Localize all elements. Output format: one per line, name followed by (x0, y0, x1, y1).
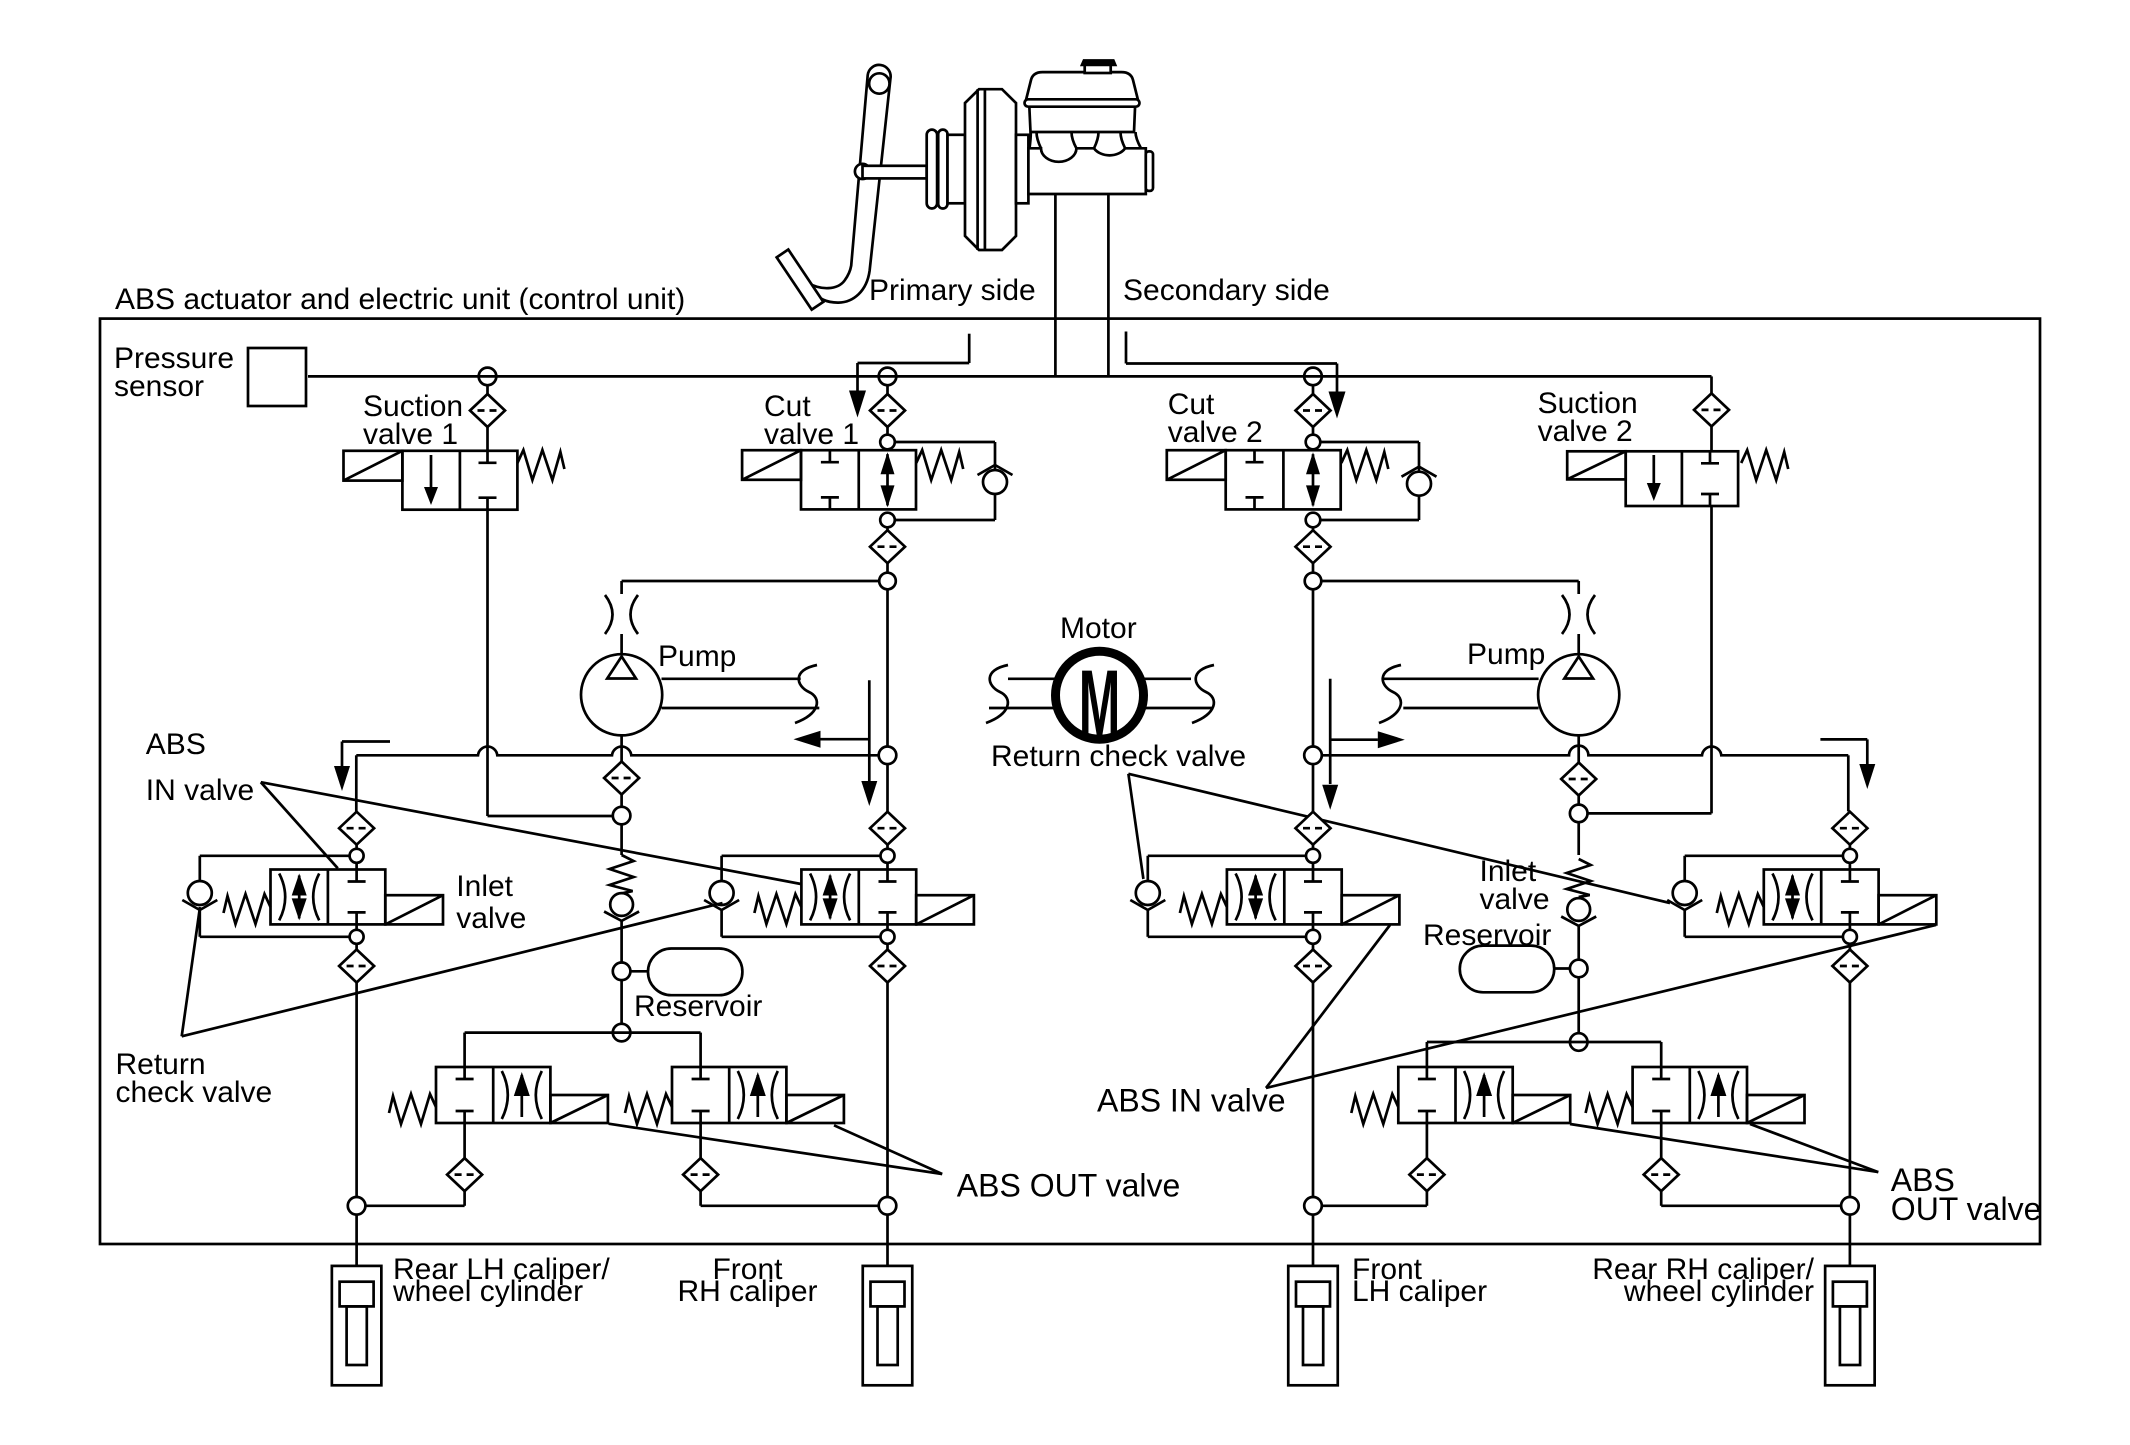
svg-text:Pump: Pump (1467, 638, 1545, 671)
svg-text:valve: valve (456, 902, 526, 935)
node reservoir 2 connection (1570, 960, 1588, 978)
wire: rear LH out to rail (365, 1204, 465, 1207)
ABS IN valve (front LH) orifice chamber (1236, 874, 1276, 921)
wire: suction valve 2 feed (1710, 376, 1713, 393)
node cut valve 1 bypass bottom (880, 513, 895, 528)
node cut valve 2 bypass bottom (1306, 513, 1321, 528)
node above ABS IN valve (rear RH) (1843, 849, 1857, 863)
ABS OUT valve (rear RH) body (1633, 1067, 1747, 1123)
suction valve 1 spring (517, 450, 564, 480)
ABS IN valve (rear RH) return check valve (1667, 881, 1702, 910)
wire: ABS IN valve (rear LH) bypass loop (200, 854, 350, 857)
ABS OUT valve (rear LH) body (436, 1067, 550, 1123)
svg-text:valve 2: valve 2 (1538, 415, 1633, 448)
master cylinder coupling (1016, 135, 1028, 204)
node above ABS IN valve (front LH) (1306, 849, 1320, 863)
pedal top pivot (869, 73, 889, 93)
ABS OUT valve (front RH) closed chamber top (692, 1067, 710, 1079)
wire to suction valve 1 (486, 427, 489, 451)
ABS IN valve (front RH) closed chamber top (879, 870, 897, 882)
ABS OUT valve (front LH) closed chamber top (1418, 1067, 1436, 1079)
ABS OUT valve (front RH) orifice chamber (738, 1071, 778, 1119)
ABS IN valve (rear RH) solenoid coil (1879, 895, 1937, 924)
cut valve 2 closed chamber top (1246, 450, 1264, 462)
flow arrow to cut valve 2 (1322, 679, 1405, 810)
ABS OUT valve (front RH) body (672, 1067, 786, 1123)
filter above ABS IN valve (front RH) (870, 812, 905, 845)
flow arrow from primary side (968, 334, 971, 363)
shaft break at motor right (1192, 665, 1214, 723)
node reservoir 1 connection (613, 963, 631, 981)
svg-text:Pump: Pump (658, 640, 736, 673)
suction valve 1 closed port top (479, 451, 497, 463)
rear RH wheel cylinder (1825, 1266, 1875, 1385)
svg-text:valve 1: valve 1 (363, 418, 458, 451)
wire: reservoir 2 to ABS OUT valves (1427, 1041, 1661, 1044)
ABS OUT valve (front RH) solenoid coil (786, 1095, 844, 1123)
filter below ABS OUT valve (rear LH) (447, 1158, 482, 1191)
pump 2 drive shaft (1384, 677, 1539, 680)
node pump 1 outlet junction (879, 573, 896, 590)
wire: cut valve 2 down line (1312, 527, 1315, 530)
node above ABS IN valve (rear LH) (350, 849, 364, 863)
filter below ABS IN valve (front RH) (870, 950, 905, 983)
node below ABS IN valve (front RH) (881, 930, 895, 944)
wire: front RH inlet drop (886, 845, 889, 849)
node pump 2 outlet junction (1305, 573, 1322, 590)
suction valve 2 spring (1741, 450, 1788, 480)
wire: front RH out to rail (701, 1204, 880, 1207)
wire: ABS IN valve (front RH) bypass loop (722, 854, 881, 857)
svg-text:wheel cylinder: wheel cylinder (392, 1275, 583, 1308)
ABS IN valve (front LH) closed chamber bottom (1304, 912, 1322, 924)
ABS OUT valve (front LH) spring (1351, 1094, 1398, 1124)
ABS OUT valve (rear RH) orifice chamber (1698, 1071, 1738, 1119)
ABS OUT valve (rear LH) closed chamber top (456, 1067, 474, 1079)
suction valve 2 closed port bottom (1701, 494, 1719, 506)
wire: pump 1 suction line (620, 735, 623, 761)
ABS OUT valve (rear RH) spring (1586, 1094, 1633, 1124)
wire: ABS OUT valve (rear RH) outlet (1660, 1123, 1663, 1158)
filter below cut valve 2 (1296, 530, 1331, 563)
pump 2 triangle (1564, 657, 1593, 679)
svg-text:Inlet: Inlet (456, 870, 513, 903)
booster front housing (948, 135, 966, 204)
node ABS OUT feed 2 (1570, 1033, 1588, 1051)
svg-text:Reservoir: Reservoir (1423, 919, 1551, 952)
svg-text:check valve: check valve (116, 1076, 273, 1109)
wire: secondary side line from master cylinder (1107, 194, 1110, 376)
wire: suction valve 2 to pump suction (1710, 506, 1713, 813)
filter above cut valve 1 (870, 394, 905, 427)
front RH caliper (863, 1266, 913, 1385)
node cut valve 1 tap (879, 368, 897, 386)
cut valve 1 closed chamber top (821, 450, 839, 462)
reservoir filler cap (1085, 64, 1111, 73)
svg-text:valve: valve (1480, 883, 1550, 916)
filter above suction valve 1 (470, 394, 505, 427)
wire: ABS OUT valve (rear LH) outlet (463, 1123, 466, 1158)
filter above ABS IN valve (front LH) (1296, 812, 1331, 845)
cut valve 1 spring (916, 450, 963, 480)
cut valve 2 spring (1341, 450, 1388, 480)
filter below ABS IN valve (rear RH) (1832, 950, 1867, 983)
flow arrow into ABS IN branch right (1820, 739, 1875, 789)
return spring above reservoir check 1 (610, 855, 634, 894)
wire: pump 1 outlet to junction (622, 580, 880, 583)
front LH caliper (1288, 1266, 1338, 1385)
cut valve 1 body (801, 450, 916, 509)
node front RH caliper junction (879, 1197, 897, 1215)
reservoir 2 (1554, 967, 1570, 970)
pointer: ABS IN valve right (1266, 925, 1390, 1088)
wire: rear LH caliper drop (355, 1214, 358, 1266)
ABS IN valve (rear LH) spring (224, 894, 271, 924)
svg-text:Motor: Motor (1060, 612, 1137, 645)
ABS OUT valve (front LH) solenoid coil (1513, 1095, 1571, 1123)
cut valve 2 body (1226, 450, 1341, 509)
cut valve 2 solenoid coil (1167, 450, 1226, 480)
node ABS OUT feed 1 (613, 1024, 631, 1042)
flow arrow from secondary side (1125, 332, 1128, 364)
ABS IN valve (front RH) return check valve (704, 881, 739, 910)
cut valve 1 bypass check valve (978, 465, 1013, 494)
wire: pressure sensor supply line (308, 375, 1712, 378)
suction valve 2 body (1626, 451, 1738, 506)
filter above ABS IN valve (rear LH) (339, 812, 374, 845)
cut valve 2 bypass check valve (1402, 467, 1437, 496)
ABS OUT valve (front RH) closed chamber bottom (692, 1111, 710, 1123)
filter below ABS OUT valve (front RH) (683, 1158, 718, 1191)
pump 1 (581, 654, 662, 735)
svg-text:ABS IN valve: ABS IN valve (1097, 1083, 1286, 1119)
ABS OUT valve (front LH) orifice chamber (1464, 1071, 1504, 1119)
cut valve 1 closed chamber bottom (821, 497, 839, 509)
wire: reservoir 1 to ABS OUT valves (465, 1031, 701, 1034)
ABS IN valve (front RH) closed chamber bottom (879, 912, 897, 924)
suction valve 2 closed port top (1701, 451, 1719, 463)
rear LH wheel cylinder (332, 1266, 382, 1385)
motor shaft left (1008, 677, 1056, 680)
filter below pump 2 (1561, 763, 1596, 796)
ABS OUT valve (front RH) spring (625, 1094, 672, 1124)
svg-text:IN valve: IN valve (146, 774, 254, 807)
shaft break at motor left (986, 665, 1008, 723)
filter above ABS IN valve (rear RH) (1832, 812, 1867, 845)
ABS IN valve (front LH) spring (1180, 894, 1227, 924)
node cut valve 1 bypass top (880, 435, 895, 450)
wire: suction rail down to inlet filter (355, 755, 358, 811)
master cylinder body (1028, 148, 1145, 194)
svg-text:ABS actuator and electric unit: ABS actuator and electric unit (control … (115, 283, 685, 316)
node below ABS IN valve (front LH) (1306, 930, 1320, 944)
svg-text:OUT valve: OUT valve (1891, 1191, 2042, 1227)
motor M (1056, 651, 1144, 739)
node rear RH caliper junction (1841, 1197, 1859, 1215)
ABS IN valve (front LH) body (1227, 870, 1342, 925)
master cylinder end cap (1146, 151, 1153, 191)
svg-text:Reservoir: Reservoir (634, 990, 762, 1023)
wire: ABS IN valve (rear LH) ports (355, 863, 358, 870)
suction valve 1 open-position arrow (424, 455, 438, 505)
ABS IN valve (rear RH) body (1764, 870, 1879, 925)
ABS OUT valve (rear RH) closed chamber bottom (1652, 1111, 1670, 1123)
node front LH caliper junction (1304, 1197, 1322, 1215)
pump 1 drive shaft (662, 677, 801, 680)
wire: cut valve 1 bypass loop (895, 441, 995, 444)
svg-text:ABS: ABS (146, 728, 206, 761)
wire: ABS IN valve (front RH) ports (886, 863, 889, 870)
wire: suction rail 2 down to inlet filter (1847, 755, 1850, 811)
wire: front LH out to rail (1321, 1204, 1427, 1207)
pump 2 suction check valve (1561, 898, 1596, 926)
svg-text:LH caliper: LH caliper (1352, 1275, 1487, 1308)
ABS OUT valve (front LH) closed chamber bottom (1418, 1111, 1436, 1123)
pointer: ABS IN valve left (261, 782, 338, 868)
brake pedal arm (808, 65, 891, 303)
wire: ABS OUT valve (front LH) outlet (1426, 1123, 1429, 1158)
wire: front LH inlet drop (1312, 845, 1315, 849)
node cut valve 2 bypass top (1306, 435, 1321, 450)
ABS IN valve (rear RH) closed chamber top (1841, 870, 1859, 882)
master cylinder reservoir tank (1029, 106, 1135, 132)
wire: suction valve 1 to pump suction (486, 510, 489, 816)
motor shaft right (1143, 677, 1191, 680)
ABS IN valve (rear LH) closed chamber bottom (348, 912, 366, 924)
suction valve 2 solenoid coil (1567, 451, 1626, 479)
node below ABS IN valve (rear LH) (350, 930, 364, 944)
ABS IN valve (front RH) spring (754, 894, 801, 924)
wire: front RH caliper drop (886, 1214, 889, 1266)
svg-text:wheel cylinder: wheel cylinder (1623, 1275, 1814, 1308)
wire: ABS IN valve (rear RH) bypass loop (1685, 854, 1843, 857)
flow arrow into ABS IN branch (334, 742, 390, 792)
wire: cut valve 2 bypass loop (1320, 441, 1419, 444)
svg-text:valve 1: valve 1 (764, 418, 859, 451)
wire: pump 1 suction down to reservoir (620, 824, 623, 855)
suction valve 2 open-position arrow (1647, 455, 1661, 501)
node below ABS IN valve (rear RH) (1843, 930, 1857, 944)
ABS actuator unit enclosure box (100, 319, 2040, 1244)
ABS IN valve (rear LH) closed chamber top (348, 870, 366, 882)
ABS IN valve (front RH) orifice chamber (810, 874, 850, 921)
ABS IN valve (rear LH) body (271, 870, 386, 925)
ABS OUT valve (rear LH) closed chamber bottom (456, 1111, 474, 1123)
cut valve 1 solenoid coil (742, 450, 801, 480)
filter below ABS OUT valve (front LH) (1409, 1158, 1444, 1191)
svg-text:sensor: sensor (114, 370, 204, 403)
ABS IN valve (rear LH) orifice chamber (279, 874, 319, 921)
cut valve 2 open chamber arrows (1306, 452, 1320, 507)
ABS IN valve (front LH) return check valve (1130, 881, 1165, 910)
svg-text:Return check valve: Return check valve (991, 740, 1246, 773)
wire: ABS IN valve (rear RH) ports (1849, 863, 1852, 870)
pointer: ABS OUT valve right (1750, 1124, 1878, 1172)
wire: rear RH caliper drop (1849, 1214, 1852, 1266)
ABS OUT valve (rear LH) solenoid coil (550, 1095, 608, 1123)
wire: rear RH inlet drop (1849, 845, 1852, 849)
suction valve 1 body (402, 451, 517, 510)
ABS IN valve (rear RH) spring (1717, 894, 1764, 924)
booster pushrod (863, 166, 927, 179)
ABS IN valve (front RH) solenoid coil (916, 895, 974, 924)
ABS OUT valve (rear LH) spring (389, 1094, 436, 1124)
pump 1 suction check valve (604, 893, 639, 921)
svg-text:ABS OUT valve: ABS OUT valve (957, 1168, 1180, 1204)
ABS OUT valve (front LH) body (1398, 1067, 1512, 1123)
wire: main pump 2 suction rail with hops (1321, 746, 1848, 756)
wire: rear RH out to rail (1661, 1204, 1841, 1207)
wire: primary side line from master cylinder (1054, 194, 1057, 376)
node rear LH caliper junction (348, 1197, 366, 1215)
wire: front LH caliper drop (1312, 1214, 1315, 1266)
wire: pump 2 suction down to reservoir (1577, 822, 1580, 855)
wire: ABS IN valve (front LH) ports (1312, 863, 1315, 870)
node cut valve 1 line crossing (879, 747, 897, 765)
wire: ABS OUT valve (front RH) outlet (699, 1123, 702, 1158)
node cut valve 2 line crossing (1304, 747, 1322, 765)
node pump 2 suction junction (1570, 805, 1588, 823)
wire: pump 2 suction line (1577, 735, 1580, 762)
return spring above reservoir check 2 (1567, 859, 1591, 897)
ABS IN valve (front RH) body (801, 870, 916, 925)
filter below ABS IN valve (front LH) (1296, 950, 1331, 983)
wire: pump 2 outlet to junction (1321, 580, 1578, 583)
filter below ABS OUT valve (rear RH) (1644, 1158, 1679, 1191)
suction valve 1 closed port bottom (479, 498, 497, 510)
pedal clevis pivot (855, 164, 870, 179)
wire: ABS IN valve (front LH) bypass loop (1148, 854, 1306, 857)
node suction valve 1 tap (479, 368, 497, 386)
reservoir tank feet (1030, 132, 1142, 148)
pressure sensor (248, 348, 306, 406)
pump 1 triangle (607, 657, 636, 679)
shaft break at pump 1 (795, 665, 817, 723)
pointer: return check valve secondary (1128, 774, 1143, 879)
ABS OUT valve (rear RH) solenoid coil (1747, 1095, 1805, 1123)
cut valve 1 open chamber arrows (881, 452, 895, 507)
ABS IN valve (rear LH) return check valve (182, 881, 217, 910)
ABS IN valve (rear RH) orifice chamber (1773, 874, 1813, 921)
flow arrow to cut valve 1 (794, 680, 878, 806)
wire: rear LH inlet drop (355, 845, 358, 849)
suction valve 1 solenoid coil (344, 451, 403, 481)
node above ABS IN valve (front RH) (881, 849, 895, 863)
ABS IN valve (front LH) closed chamber top (1304, 870, 1322, 882)
svg-text:RH caliper: RH caliper (677, 1275, 817, 1308)
svg-text:Secondary side: Secondary side (1123, 274, 1330, 307)
node pump 1 suction junction (613, 807, 631, 825)
svg-text:Primary side: Primary side (869, 274, 1036, 307)
ABS IN valve (front LH) solenoid coil (1342, 895, 1400, 924)
ABS IN valve (rear LH) solenoid coil (385, 895, 443, 924)
pointer: ABS OUT valve left (609, 1124, 943, 1174)
pump 2 outlet orifice (1562, 595, 1570, 634)
filter below cut valve 1 (870, 530, 905, 563)
node cut valve 2 tap (1304, 368, 1322, 386)
ABS OUT valve (rear LH) orifice chamber (502, 1071, 542, 1119)
wire: cut valve 1 down line (886, 527, 889, 530)
pump 1 outlet orifice (605, 595, 613, 634)
ABS IN valve (rear RH) closed chamber bottom (1841, 912, 1859, 924)
filter above suction valve 2 (1694, 393, 1729, 426)
filter below ABS IN valve (rear LH) (339, 950, 374, 983)
wire: main pump 1 suction rail with hops (356, 747, 879, 756)
shaft break at pump 2 (1379, 665, 1401, 723)
booster seal rings (927, 130, 937, 209)
reservoir 1 (630, 970, 648, 973)
filter above cut valve 2 (1296, 394, 1331, 427)
svg-text:valve 2: valve 2 (1168, 416, 1263, 449)
cut valve 2 closed chamber bottom (1246, 497, 1264, 509)
filter below pump 1 (604, 762, 639, 795)
brake booster body (965, 89, 1016, 250)
ABS OUT valve (rear RH) closed chamber top (1652, 1067, 1670, 1079)
pointer: return check valve primary (182, 907, 200, 1036)
brake pedal pad (777, 250, 824, 310)
wire to suction valve 2 (1710, 426, 1713, 451)
pump 2 (1538, 654, 1619, 735)
